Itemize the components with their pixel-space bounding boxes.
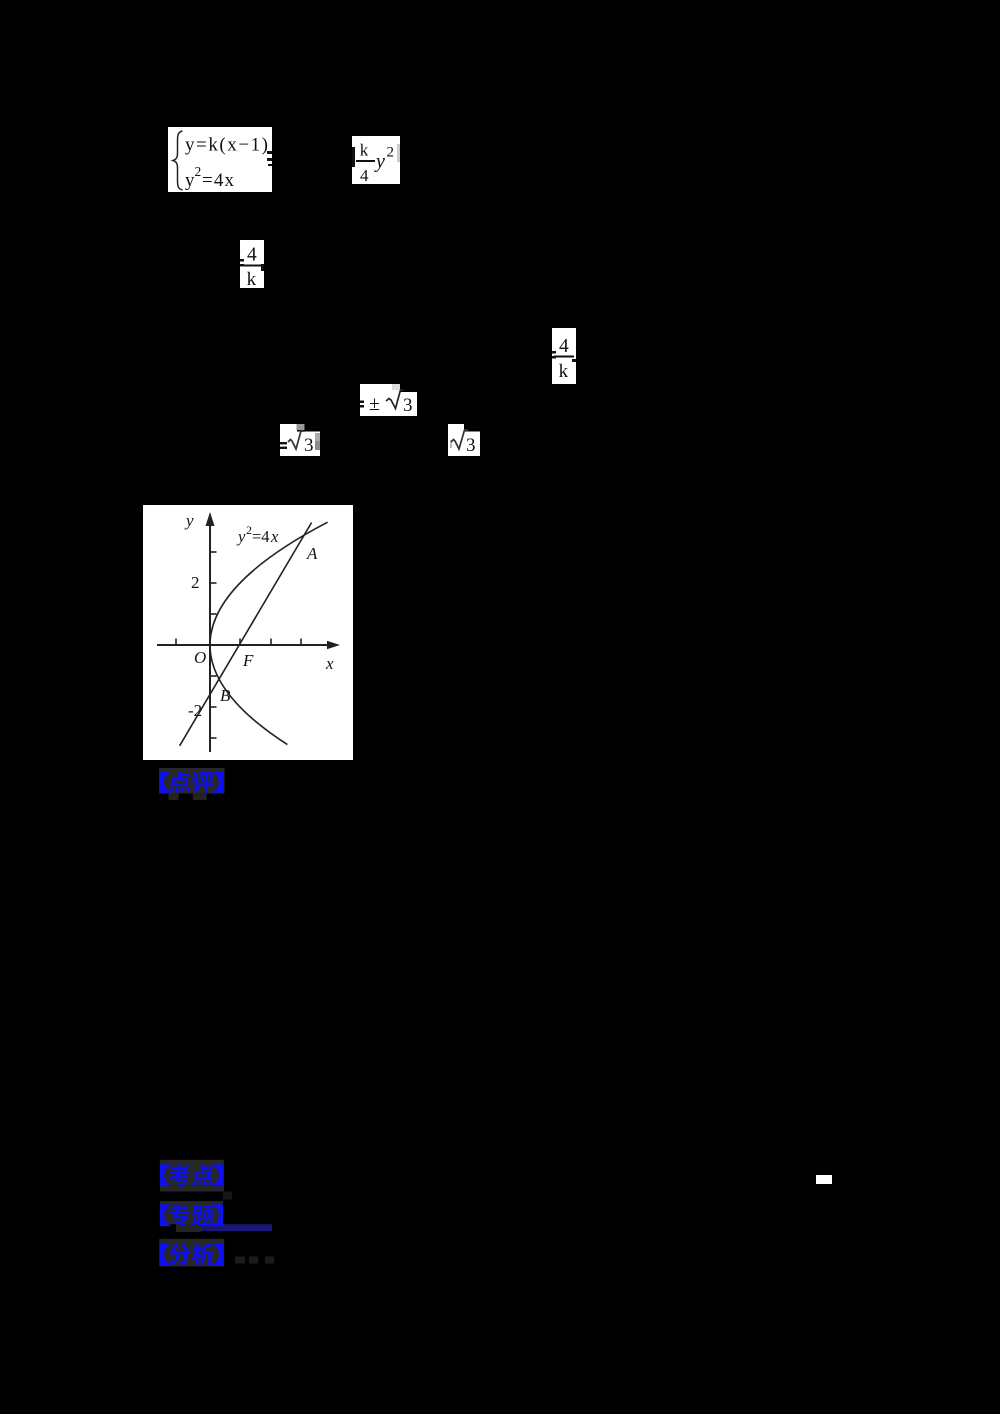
blue label: dianping (comment) — [157, 766, 227, 802]
svg-text:y=k(x−1): y=k(x−1) — [185, 135, 268, 156]
formula image: plus-minus sqrt(3) — [360, 384, 417, 416]
svg-text:A: A — [306, 544, 318, 563]
svg-text:±: ± — [369, 393, 380, 415]
svg-text:2: 2 — [191, 573, 200, 592]
svg-text:F: F — [242, 651, 254, 670]
svg-text:x: x — [325, 654, 334, 673]
chord line through focus — [180, 523, 312, 746]
formula image: (k/4)y^2 — [352, 136, 400, 184]
svg-text:2: 2 — [195, 164, 202, 179]
svg-text:B: B — [220, 686, 231, 705]
svg-text:y: y — [184, 511, 194, 530]
formula image: = sqrt(3) — [280, 424, 320, 456]
x ticks — [175, 639, 177, 646]
svg-text:2: 2 — [387, 145, 395, 161]
y ticks — [210, 551, 217, 553]
formula image: system y=k(x-1), y^2=4x — [168, 127, 272, 192]
svg-text:=4x: =4x — [202, 170, 235, 191]
svg-text:y: y — [236, 527, 246, 546]
svg-text:k: k — [559, 361, 569, 382]
svg-text:4: 4 — [360, 166, 369, 184]
svg-text:O: O — [194, 648, 206, 667]
svg-text:k: k — [360, 141, 369, 160]
small formula image: dash — [816, 1175, 832, 1184]
svg-text:-2: -2 — [188, 701, 202, 720]
svg-text:y: y — [185, 170, 195, 191]
svg-text:3: 3 — [403, 395, 413, 416]
labels — [184, 511, 334, 705]
graph image: parabola y^2=4x with focal chord — [143, 505, 353, 760]
svg-text:4: 4 — [559, 336, 569, 357]
svg-text:3: 3 — [304, 435, 314, 456]
blue label: kaodian (topic tested) — [157, 1158, 233, 1202]
formula image: 4/k fraction (first) — [240, 240, 264, 288]
svg-text:k: k — [247, 269, 257, 288]
svg-text:=4: =4 — [252, 527, 270, 546]
svg-text:3: 3 — [466, 435, 476, 456]
x-axis — [157, 644, 333, 646]
svg-text:y: y — [374, 151, 385, 173]
formula image: sqrt(3) — [448, 424, 480, 456]
svg-text:4: 4 — [247, 245, 257, 266]
parabola y^2=4x — [210, 522, 328, 744]
svg-text:x: x — [270, 527, 279, 546]
blue label: zhuanti (category) with navy underline bar — [157, 1199, 277, 1235]
blue label: fenxi (analysis) — [157, 1237, 287, 1269]
y-axis — [209, 518, 211, 752]
formula image: 4/k fraction (second) — [552, 328, 576, 384]
